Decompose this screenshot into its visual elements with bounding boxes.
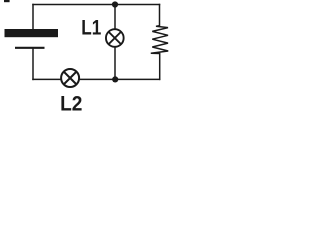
svg-text:L2: L2 xyxy=(60,93,82,116)
svg-text:L1: L1 xyxy=(81,17,101,40)
